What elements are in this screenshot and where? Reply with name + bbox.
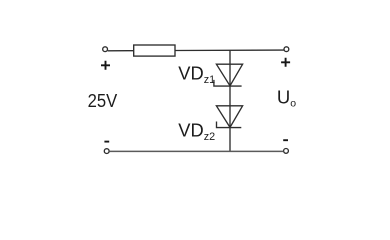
label - polarity output [283, 139, 288, 141]
wire resistor to top-right terminal [175, 49, 284, 51]
node input - terminal (bottom-left) [104, 149, 109, 154]
node output - terminal (bottom-right) [284, 149, 289, 154]
wire vertical branch through zener diodes [229, 50, 231, 151]
label + polarity output [281, 58, 290, 67]
resistor R (series limiting resistor) [134, 45, 175, 56]
zener diode VDz2 triangle [216, 106, 242, 128]
label - polarity input [104, 141, 109, 143]
label + polarity input [101, 61, 110, 70]
zener diode VDz1 cathode bar with bent end [214, 80, 242, 86]
svg-text:25V: 25V [88, 90, 118, 111]
zener diode VDz2 cathode bar with bent end [217, 122, 242, 128]
wire top-left terminal to resistor [108, 50, 134, 52]
node output + terminal (top-right) [284, 47, 289, 52]
node input + terminal (top-left) [103, 47, 108, 52]
zener diode VDz1 triangle [216, 64, 242, 86]
wire bottom rail [109, 150, 283, 152]
